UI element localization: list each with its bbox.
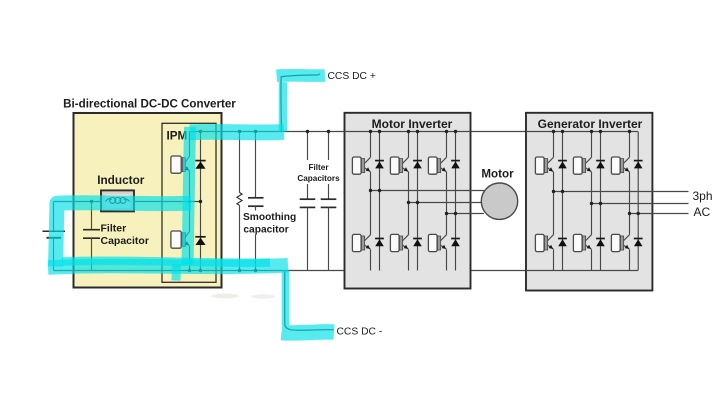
diode D7 MI upper bbox=[451, 161, 460, 169]
junction MI col2 top bbox=[407, 130, 410, 133]
wire filter capacitor top lead bbox=[91, 202, 93, 230]
wire GI col2 lower emitter bbox=[591, 250, 593, 271]
junction GI col1 top bbox=[552, 130, 555, 133]
junction MI col1 diode top bbox=[378, 130, 381, 133]
Motor Inverter enclosure bbox=[345, 113, 471, 289]
wire GI col2 diode column bbox=[600, 132, 602, 271]
inductor L1 bbox=[101, 190, 134, 211]
junction MI col2 diode top bbox=[416, 130, 419, 133]
junction GI phase 3 tap bbox=[628, 212, 631, 215]
wire battery bottom lead bbox=[53, 238, 55, 271]
label Filter Capacitor bbox=[101, 223, 149, 247]
wire GI col2 mid bbox=[591, 172, 593, 235]
wire top DC bus bbox=[190, 131, 639, 133]
highlight bottom bus run bbox=[48, 265, 288, 267]
junction MI phase 2 diode tap bbox=[416, 201, 419, 204]
wire MI col3 mid bbox=[446, 172, 448, 235]
diode D5 MI upper bbox=[413, 161, 422, 169]
junction GI col2 diode top bbox=[599, 130, 602, 133]
wire battery top lead bbox=[53, 202, 55, 232]
transistor Q11 GI upper bbox=[573, 157, 591, 174]
wire GI col1 lower emitter bbox=[553, 250, 555, 271]
capacitor C3 bbox=[300, 199, 316, 207]
junction GI col3 top bbox=[628, 130, 631, 133]
transistor Q14 GI lower bbox=[611, 234, 629, 251]
junction GI phase 1 diode tap bbox=[561, 190, 564, 193]
junction GI phase 2 tap bbox=[590, 202, 593, 205]
highlight bottom run second pass bbox=[62, 261, 270, 263]
wire MI col3 upper collector bbox=[446, 132, 448, 158]
junction GI phase 2 diode tap bbox=[599, 202, 602, 205]
junction MI phase 3 diode tap bbox=[454, 212, 457, 215]
junction GI phase 3 diode tap bbox=[637, 212, 640, 215]
transistor Q7 MI upper bbox=[428, 157, 446, 174]
highlight IPM column hook bbox=[172, 264, 182, 281]
diode D2 IPM lower bbox=[195, 237, 205, 245]
junction resistor top bbox=[238, 130, 241, 133]
wire MI col1 diode column bbox=[379, 132, 381, 271]
diode D3 MI upper bbox=[375, 161, 384, 169]
highlight CCS minus lead bbox=[282, 332, 335, 333]
diode D11 GI upper bbox=[596, 161, 605, 169]
wire MI col2 mid bbox=[408, 172, 410, 235]
svg-text:Inductor: Inductor bbox=[97, 173, 145, 187]
wire MI phase 2 to motor bbox=[409, 202, 485, 204]
wire MI col1 mid bbox=[370, 172, 372, 235]
wire filter cap C4 bottom lead bbox=[328, 207, 330, 270]
wire MI col3 lower emitter bbox=[446, 250, 448, 271]
wire GI col1 upper collector bbox=[553, 132, 555, 158]
diode D6 MI lower bbox=[413, 239, 422, 247]
wire GI col3 lower emitter bbox=[629, 250, 631, 271]
junction MI phase 1 tap bbox=[369, 189, 372, 192]
transistor Q10 GI lower bbox=[535, 234, 553, 251]
junction MI phase 2 tap bbox=[407, 201, 410, 204]
junction resistor bottom bbox=[238, 269, 241, 272]
wire GI col3 upper collector bbox=[629, 132, 631, 158]
svg-text:Bi-directional DC-DC Converter: Bi-directional DC-DC Converter bbox=[63, 98, 236, 111]
capacitor C1 Filter Capacitor bbox=[83, 230, 100, 239]
junction filter-cap tap bbox=[90, 200, 93, 203]
transistor Q3 MI upper bbox=[352, 157, 370, 174]
transistor Q4 MI lower bbox=[352, 234, 370, 251]
svg-text:3ph: 3ph bbox=[693, 189, 713, 203]
wire MI phase 3 to motor bbox=[447, 213, 485, 215]
svg-text:Smoothing: Smoothing bbox=[243, 212, 296, 223]
junction smoothing bottom bbox=[254, 269, 257, 272]
wire CCS DC plus tap bbox=[281, 74, 320, 132]
label Smoothing capacitor bbox=[243, 212, 296, 235]
wire GI phase 2 output bbox=[592, 203, 689, 205]
wire MI col1 lower emitter bbox=[370, 250, 372, 271]
wire filter cap C4 top lead bbox=[328, 132, 330, 200]
wire bottom bus inside generator inverter bbox=[526, 270, 638, 272]
wire smoothing cap bottom lead bbox=[255, 206, 257, 270]
svg-text:CCS DC +: CCS DC + bbox=[328, 71, 376, 82]
wire GI col1 mid bbox=[553, 172, 555, 235]
junction MI col1 top bbox=[369, 130, 372, 133]
wire IPM upper collector bbox=[189, 132, 191, 157]
wire top bus inside generator inverter bbox=[526, 131, 638, 133]
svg-text:Generator Inverter: Generator Inverter bbox=[538, 117, 643, 131]
wire MI phase 1 to motor bbox=[371, 190, 485, 192]
svg-text:Capacitor: Capacitor bbox=[101, 235, 149, 247]
transistor Q2 IPM lower IGBT bbox=[171, 231, 190, 248]
highlight IPM column bbox=[188, 127, 191, 265]
Generator Inverter enclosure bbox=[526, 113, 652, 291]
wire GI phase 3 output bbox=[630, 213, 689, 215]
diode D8 MI lower bbox=[451, 239, 460, 247]
wire MI col3 diode column bbox=[455, 132, 457, 271]
wire bleed resistor bottom lead bbox=[239, 205, 241, 270]
junction filter cap C4 top bbox=[327, 130, 330, 133]
junction MI col3 top bbox=[445, 130, 448, 133]
highlight inductor run and left drop bbox=[56, 203, 192, 267]
wire smoothing cap top lead bbox=[255, 132, 257, 198]
battery BT1 bbox=[43, 231, 66, 238]
wire filter cap C3 bottom lead bbox=[307, 207, 309, 270]
junction GI col1 diode top bbox=[561, 130, 564, 133]
label Filter Capacitors background bbox=[296, 160, 342, 184]
junction GI phase 1 tap bbox=[552, 190, 555, 193]
IPM enclosure U1 bbox=[162, 123, 216, 282]
label Smoothing capacitor background bbox=[242, 211, 298, 235]
highlight CCS plus riser bbox=[279, 82, 287, 131]
wire IPM diode column bbox=[200, 132, 202, 271]
wire IPM mid column bbox=[189, 171, 191, 232]
diode D4 MI lower bbox=[375, 239, 384, 247]
junction GI col2 top bbox=[590, 130, 593, 133]
wire GI col1 diode column bbox=[562, 132, 564, 271]
junction smoothing top bbox=[254, 130, 257, 133]
wire MI col2 diode column bbox=[417, 132, 419, 271]
svg-text:CCS DC -: CCS DC - bbox=[337, 327, 383, 338]
transistor Q1 IPM upper IGBT bbox=[171, 156, 190, 173]
wire filter capacitor bottom lead bbox=[91, 238, 93, 270]
wire CCS DC minus tap bbox=[285, 271, 334, 331]
svg-text:capacitor: capacitor bbox=[243, 224, 288, 235]
wire GI phase 1 output bbox=[554, 191, 689, 193]
wire top bus inside motor inverter bbox=[345, 131, 471, 133]
transistor Q6 MI lower bbox=[390, 234, 408, 251]
svg-text:Filter: Filter bbox=[101, 223, 127, 235]
transistor Q9 GI upper bbox=[535, 157, 553, 174]
svg-text:Motor Inverter: Motor Inverter bbox=[372, 117, 453, 131]
highlight CCS plus lead bbox=[277, 69, 325, 82]
wire IPM lower emitter bbox=[189, 246, 191, 271]
motor M1 bbox=[481, 183, 517, 219]
wire GI col3 diode column bbox=[637, 132, 639, 271]
capacitor C4 bbox=[321, 199, 337, 207]
DC-DC converter enclosure bbox=[74, 113, 222, 288]
junction MI phase 1 diode tap bbox=[378, 189, 381, 192]
wire MI col2 upper collector bbox=[408, 132, 410, 158]
label Filter Capacitors bbox=[297, 163, 340, 183]
transistor Q5 MI upper bbox=[390, 157, 408, 174]
wire mid wire inductor to IPM bbox=[134, 201, 201, 203]
junction IPM midpoint bbox=[188, 200, 191, 203]
diode D14 GI lower bbox=[634, 239, 643, 247]
wire MI col1 upper collector bbox=[370, 132, 372, 158]
diode D1 IPM upper bbox=[195, 161, 205, 169]
svg-text:AC: AC bbox=[694, 205, 711, 219]
diode D13 GI upper bbox=[634, 161, 643, 169]
resistor R1 bbox=[237, 193, 242, 206]
capacitor C2 Smoothing bbox=[248, 198, 264, 206]
junction MI col3 diode top bbox=[454, 130, 457, 133]
svg-text:Motor: Motor bbox=[481, 167, 514, 180]
junction MI phase 3 tap bbox=[445, 212, 448, 215]
transistor Q12 GI lower bbox=[573, 234, 591, 251]
wire bleed resistor top lead bbox=[239, 132, 241, 193]
wire filter cap C3 top lead bbox=[307, 132, 309, 200]
wire mid wire battery to inductor bbox=[54, 201, 102, 203]
wire MI col2 lower emitter bbox=[408, 250, 410, 271]
diode D9 GI upper bbox=[558, 161, 567, 169]
highlight CCS minus drop bbox=[282, 271, 290, 326]
transistor Q8 MI lower bbox=[428, 234, 446, 251]
junction IPM emitter bottom bbox=[188, 269, 191, 272]
junction IPM diode midpoint bbox=[199, 200, 202, 203]
wire GI col3 mid bbox=[629, 172, 631, 235]
svg-text:Capacitors: Capacitors bbox=[297, 174, 340, 183]
wire bottom DC bus bbox=[54, 270, 639, 272]
wire GI col2 upper collector bbox=[591, 132, 593, 158]
diode D10 GI lower bbox=[558, 239, 567, 247]
junction filter cap C3 top bbox=[306, 130, 309, 133]
svg-text:Filter: Filter bbox=[308, 163, 329, 172]
junction IPM diode top bbox=[199, 130, 202, 133]
highlight top bus run bbox=[190, 124, 284, 140]
diode D12 GI lower bbox=[596, 239, 605, 247]
transistor Q13 GI upper bbox=[611, 157, 629, 174]
junction IPM diode bottom bbox=[199, 269, 202, 272]
